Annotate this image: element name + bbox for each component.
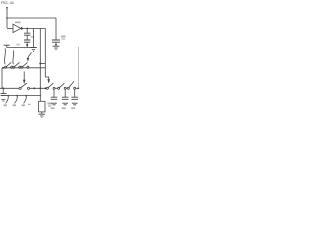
leader hook 2 [15, 96, 18, 104]
wire right faint vertical [77, 47, 79, 88]
node E junction dot [39, 63, 41, 65]
node bus x40 dot [39, 87, 41, 89]
ground G3 [53, 46, 60, 49]
ground G7 [62, 103, 68, 105]
label dash near 214 [28, 104, 31, 105]
op-amp U1 inverter [13, 24, 21, 32]
switch SW3 contact [21, 66, 23, 68]
wire input vertical [6, 8, 8, 28]
label 214 [22, 104, 25, 106]
switch SW1 contact [5, 66, 7, 68]
capacitor C4 left plate [4, 44, 10, 46]
switch SW3 arm [23, 62, 28, 66]
switch SW2 right contact [19, 66, 21, 68]
wire C4 stub [6, 45, 8, 47]
switch SW1 arm [6, 62, 11, 66]
node bus right end dot [77, 87, 79, 89]
switch SW7 arm [69, 81, 74, 87]
wire elbow to control arrow [45, 77, 48, 80]
node bus2 dot 1 [7, 95, 9, 97]
label 216 near bus [17, 44, 20, 46]
node bus x45 dot [45, 87, 47, 89]
node bus x34 dot [33, 87, 35, 89]
wire stub E to F [40, 63, 45, 65]
svg-text:FIG. 41: FIG. 41 [1, 0, 15, 5]
control arrowhead SW4 [23, 80, 26, 84]
label 218 [31, 36, 35, 38]
control leader curve S2 [12, 51, 15, 65]
label 223 [71, 107, 75, 109]
switch SW7 contact [67, 87, 69, 89]
wire ground bus y47 [7, 47, 34, 49]
control arrowhead S3 [27, 58, 30, 62]
control arrowhead BR [47, 79, 50, 83]
leader hook 3 [24, 96, 27, 104]
wire C1 to C2 [26, 35, 28, 40]
output arrowhead at apex [21, 27, 24, 30]
wire bottom bus y88 [0, 87, 19, 89]
switch SW6 contact [58, 87, 60, 89]
node bus2 dot 2 [16, 95, 18, 97]
wire resistor lead bottom [41, 112, 43, 114]
switch SW2 arm [15, 62, 20, 66]
wire switch row y68 [2, 67, 45, 69]
ground G8 [72, 103, 78, 105]
switch SW3 right contact [27, 66, 29, 68]
node bus left dot [2, 87, 4, 89]
label 217 [48, 103, 52, 105]
wire bottom bus y88 right [55, 87, 58, 89]
switch SW4 arm [21, 83, 27, 88]
node bus2 dot 3 [25, 95, 27, 97]
control leader curve S3 [28, 53, 32, 58]
label 213 [13, 104, 16, 106]
wire left drop to bottom bus [1, 68, 3, 89]
switch SW6 arm [59, 83, 64, 87]
label 222 [62, 107, 66, 109]
wire C8 branch [74, 89, 76, 97]
node B output junction [26, 28, 28, 30]
label 220 above inverter [15, 22, 21, 24]
label 219 [61, 36, 66, 38]
switch SW5 arm [48, 83, 53, 87]
capacitor C3 [52, 40, 60, 42]
switch SW5 right contact [53, 87, 55, 89]
wire branch x40 vertical [39, 28, 41, 88]
ground G4 marks [1, 99, 5, 101]
wire inverter output [21, 27, 46, 29]
node switch-row left dot [2, 67, 4, 69]
wire mid branch from output [33, 28, 35, 47]
ground G1 [30, 48, 36, 52]
ground G2 [39, 114, 45, 117]
wire C2 down [26, 42, 28, 47]
label 212 [4, 104, 7, 106]
wire bottom bus y88 mid [30, 87, 46, 89]
control leader curve S1 [4, 48, 7, 64]
wire inverter input elbow [7, 27, 13, 29]
node C3-gnd junction [55, 44, 57, 46]
wire label bus y95.6 [3, 95, 41, 97]
capacitor C7 [62, 97, 69, 99]
switch SW4 contact [19, 87, 21, 89]
capacitor C5 [1, 94, 7, 96]
resistor R1 [39, 101, 45, 112]
wire C5 branch [2, 88, 4, 93]
capacitor C1 [24, 33, 30, 35]
switch SW6 right contact [64, 87, 66, 89]
wire C7 branch [64, 89, 66, 97]
switch SW1 right contact [11, 66, 13, 68]
wire feedback top [7, 17, 56, 19]
wire C6 branch [53, 89, 55, 97]
node D junction dot [26, 44, 28, 46]
leader hook 1 [6, 96, 9, 104]
capacitor C8 [71, 97, 78, 99]
wire branch x45 vertical [44, 28, 46, 77]
wire resistor lead top [39, 88, 41, 101]
node A junction of input and feedback [6, 17, 8, 19]
capacitor C2 [24, 40, 30, 42]
switch SW2 contact [13, 66, 15, 68]
wire output branch down [26, 28, 28, 33]
ground G6 [51, 103, 57, 105]
input arrowhead [6, 7, 8, 10]
switch SW4 right contact [27, 87, 29, 89]
wire feedback right vertical [55, 18, 57, 40]
switch SW5 contact [46, 87, 48, 89]
control line SW4 [23, 72, 25, 81]
capacitor C6 [51, 97, 58, 99]
label 221 [51, 107, 55, 109]
switch SW7 right contact [74, 87, 76, 89]
